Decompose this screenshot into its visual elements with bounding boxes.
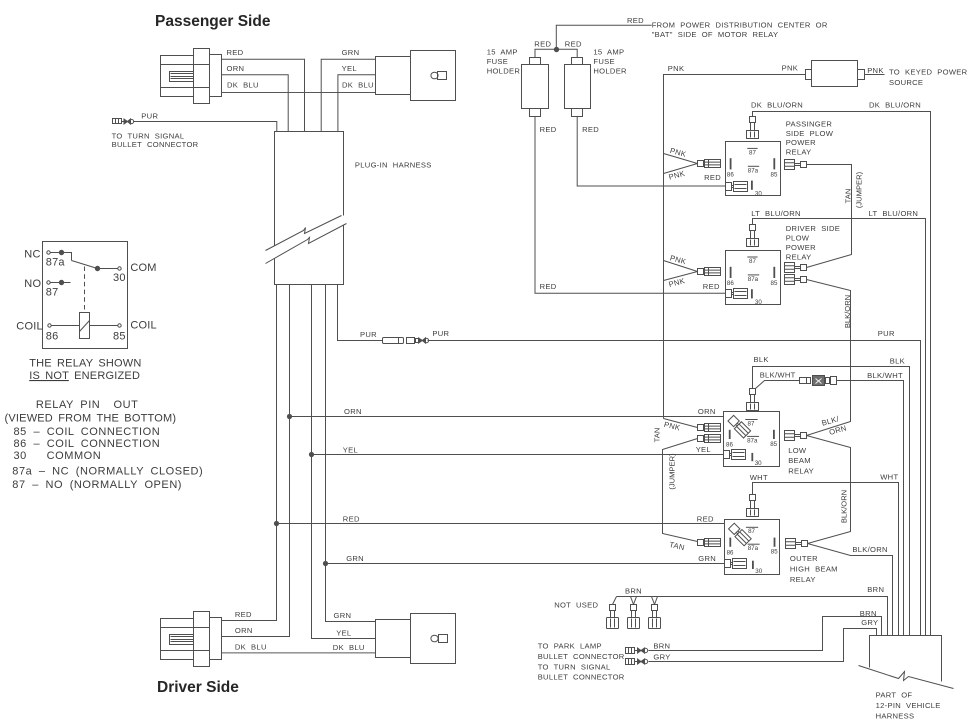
svg-text:IS NOT ENERGIZED: IS NOT ENERGIZED [29, 370, 140, 382]
svg-text:TAN: TAN [668, 540, 685, 552]
svg-text:TO KEYED POWER: TO KEYED POWER [889, 67, 968, 76]
wire RED fuse F2 top to junction [556, 40, 582, 58]
relay K1 left spade connector [698, 160, 721, 168]
wire RED fuse F1 to driver relay 86 [535, 116, 725, 293]
relay K4 pin 85 [771, 538, 778, 556]
wire GRN passenger [321, 48, 375, 131]
relay internal schematic box [43, 242, 128, 349]
svg-text:PASSINGER: PASSINGER [786, 119, 833, 128]
svg-text:BLK/WHT: BLK/WHT [867, 371, 903, 380]
bullet connector pair BRN park lamp [626, 648, 648, 654]
wire WHT outer high beam relay to 12-pin harness [750, 473, 899, 636]
svg-text:BRN: BRN [860, 609, 877, 618]
relay K1 pin 86 [727, 158, 734, 178]
not used spade connector 3 [649, 597, 661, 629]
wire ORN passenger [222, 64, 289, 131]
svg-text:SOURCE: SOURCE [889, 78, 923, 87]
svg-text:RELAY: RELAY [786, 148, 812, 157]
svg-text:THE RELAY SHOWN: THE RELAY SHOWN [29, 358, 141, 370]
wire PUR below harness with inline bullet pair [338, 285, 383, 341]
svg-text:PNK: PNK [669, 146, 687, 159]
relay K1 passenger side plow power relay box [726, 119, 834, 195]
svg-text:RED: RED [343, 515, 360, 524]
relay K2 pin 30 [752, 289, 762, 306]
svg-text:BRN: BRN [625, 586, 642, 595]
wire YEL passenger [338, 64, 375, 131]
svg-text:87a: 87a [748, 545, 759, 552]
relay K2 left spade connector [698, 268, 721, 276]
relay K2 pin 85 [771, 267, 778, 287]
svg-text:86 – COIL CONNECTION: 86 – COIL CONNECTION [14, 438, 161, 450]
junction RED fuses [554, 47, 558, 51]
svg-text:BLK/WHT: BLK/WHT [760, 370, 796, 379]
svg-text:30: 30 [755, 460, 762, 467]
svg-text:PART OF: PART OF [876, 691, 913, 700]
wire DK BLU driver [222, 643, 376, 653]
relay K3 right spade connector [785, 431, 807, 441]
relay K1 right spade connector [785, 160, 807, 170]
wire LT BLU/ORN to 12-pin harness [751, 209, 925, 635]
wire PNK keyed power vertical and horizontal [664, 63, 806, 418]
connector J4 driver bulb socket (right) [376, 614, 456, 664]
connector J1 passenger headlamp plug (left) [161, 49, 222, 104]
plug-in harness box [275, 132, 432, 285]
svg-text:87 – NO (NORMALLY OPEN): 87 – NO (NORMALLY OPEN) [12, 479, 182, 491]
relay moving arm to COM 30 [72, 261, 157, 285]
svg-text:RED: RED [703, 282, 720, 291]
note from power distribution center [652, 21, 828, 40]
wire PNK to keyed power source [865, 66, 968, 87]
wire PUR to 12-pin harness [428, 329, 921, 636]
wire PNK branch to driver relay [664, 253, 698, 289]
svg-text:ORN: ORN [698, 407, 716, 416]
note relay pin out list [5, 399, 204, 491]
relay contact NC 87a [24, 248, 71, 268]
svg-text:COIL: COIL [130, 320, 156, 332]
relay K4 pin 86 [727, 538, 734, 557]
svg-text:FROM POWER DISTRIBUTION CENTER: FROM POWER DISTRIBUTION CENTER OR [652, 21, 828, 30]
svg-text:RED: RED [565, 40, 582, 49]
svg-text:OUTER: OUTER [790, 554, 818, 563]
relay K2 pin 86 [727, 267, 734, 287]
svg-text:POWER: POWER [786, 243, 816, 252]
svg-text:RED: RED [540, 282, 557, 291]
svg-text:85: 85 [771, 549, 778, 556]
svg-text:85 – COIL CONNECTION: 85 – COIL CONNECTION [14, 426, 161, 438]
svg-text:HOLDER: HOLDER [487, 67, 521, 76]
svg-text:GRN: GRN [334, 611, 352, 620]
relay K3 pin 85 [770, 430, 777, 448]
note the relay shown is not energized [29, 358, 141, 382]
bullet connector pair PUR (to turn signal, passenger) [113, 119, 134, 125]
relay K2 pin 87a [748, 275, 759, 283]
svg-text:12-PIN VEHICLE: 12-PIN VEHICLE [876, 701, 941, 710]
svg-text:BRN: BRN [653, 641, 670, 650]
relay coil pin 85 [90, 320, 157, 343]
svg-text:RED: RED [227, 48, 244, 57]
wire RED passenger [222, 48, 305, 131]
svg-text:BLK/ORN: BLK/ORN [839, 490, 848, 523]
svg-text:30: 30 [755, 568, 762, 575]
svg-text:PNK: PNK [668, 169, 686, 182]
relay K2 driver side plow power relay box [726, 224, 841, 304]
svg-text:15 AMP: 15 AMP [593, 47, 624, 56]
svg-text:TO PARK LAMP: TO PARK LAMP [538, 642, 602, 651]
svg-text:GRN: GRN [342, 48, 360, 57]
harness break lines [266, 216, 347, 264]
svg-text:"BAT" SIDE OF MOTOR RELAY: "BAT" SIDE OF MOTOR RELAY [652, 30, 779, 39]
svg-text:(VIEWED FROM THE BOTTOM): (VIEWED FROM THE BOTTOM) [5, 413, 177, 425]
relay K3 bottom spade connector [724, 450, 746, 460]
svg-text:ORN: ORN [235, 626, 253, 635]
svg-text:NO: NO [24, 278, 41, 290]
svg-text:RED: RED [534, 40, 551, 49]
svg-text:PNK: PNK [668, 276, 686, 289]
wire BRN not used chain to 12-pin harness [617, 585, 888, 635]
svg-text:WHT: WHT [750, 473, 768, 482]
svg-text:(JUMPER): (JUMPER) [854, 171, 863, 208]
svg-text:87a: 87a [748, 167, 759, 174]
svg-text:PNK: PNK [782, 63, 799, 72]
svg-text:DK BLU: DK BLU [333, 643, 365, 652]
svg-text:COIL: COIL [16, 321, 42, 333]
svg-text:87a – NC (NORMALLY CLOSED): 87a – NC (NORMALLY CLOSED) [12, 465, 203, 477]
svg-text:30: 30 [755, 299, 762, 306]
svg-text:GRY: GRY [861, 618, 878, 627]
svg-text:ORN: ORN [344, 407, 362, 416]
relay K2 right upper spade connector [785, 263, 807, 273]
relay K1 top spade connector [747, 117, 759, 139]
12-pin vehicle harness box [859, 636, 954, 721]
relay K3 pin 87 [745, 420, 757, 428]
relay coil pin 86 [16, 321, 79, 343]
svg-text:BRN: BRN [867, 585, 884, 594]
svg-text:DK BLU/ORN: DK BLU/ORN [869, 101, 921, 110]
relay K4 right spade connector [786, 539, 808, 549]
svg-text:HIGH BEAM: HIGH BEAM [790, 564, 838, 573]
svg-text:RED: RED [582, 125, 599, 134]
wire ORN below harness to driver side and low beam relay [222, 285, 724, 637]
svg-text:PNK: PNK [669, 253, 687, 266]
wire GRN below harness to driver side and outer high beam relay [323, 285, 724, 622]
wire TAN jumper relay K1 to relay K2 [807, 165, 864, 268]
svg-text:DK BLU/ORN: DK BLU/ORN [751, 101, 803, 110]
svg-text:PNK: PNK [663, 420, 681, 433]
wire YEL below harness to driver side and low beam relay [309, 285, 723, 639]
svg-text:HARNESS: HARNESS [876, 712, 915, 721]
svg-text:RELAY: RELAY [790, 575, 816, 584]
wire BLK low beam relay to 12-pin harness [753, 355, 910, 636]
relay K3 pin 86 [726, 430, 733, 449]
relay K1 pin 85 [771, 158, 778, 178]
svg-text:BULLET CONNECTOR: BULLET CONNECTOR [112, 140, 199, 149]
relay K4 pin 87 [746, 527, 758, 535]
svg-text:RED: RED [627, 16, 644, 25]
svg-text:RELAY PIN OUT: RELAY PIN OUT [36, 399, 138, 411]
svg-text:RED: RED [235, 610, 252, 619]
svg-text:RELAY: RELAY [788, 467, 814, 476]
wire RED to power distribution center [556, 16, 651, 49]
svg-text:LOW: LOW [788, 446, 807, 455]
svg-text:TO TURN SIGNAL: TO TURN SIGNAL [538, 662, 611, 671]
svg-text:RELAY: RELAY [786, 252, 812, 261]
svg-text:PUR: PUR [360, 330, 377, 339]
svg-text:NC: NC [24, 248, 40, 260]
svg-text:86: 86 [727, 549, 734, 556]
relay K3 left upper spade connector [698, 424, 721, 432]
relay K4 pin 30 [753, 561, 763, 575]
inline connector pair BLK/WHT [800, 376, 837, 386]
relay K2 bottom spade connector [726, 289, 748, 299]
relay K4 pin 87a [748, 544, 760, 552]
svg-text:RED: RED [540, 125, 557, 134]
relay K4 outer high beam relay box [725, 520, 838, 584]
svg-text:FUSE: FUSE [487, 57, 508, 66]
svg-text:87a: 87a [747, 437, 758, 444]
relay K3 top spade connector [747, 389, 759, 411]
svg-text:COM: COM [130, 262, 156, 274]
wire PUR to plug-in harness (passenger) [134, 111, 277, 131]
wire PNK branch to low beam relay [663, 419, 697, 433]
fuse holder F2 15 amp [565, 47, 628, 116]
inline component PNK (diode block) [806, 61, 865, 87]
svg-text:Driver Side: Driver Side [157, 679, 239, 696]
wire BLK/ORN outer high beam relay to 12-pin harness [808, 544, 893, 636]
svg-text:BLK/ORN: BLK/ORN [852, 545, 887, 554]
svg-text:BLK/ORN: BLK/ORN [843, 295, 852, 328]
relay contact NO 87 [24, 278, 70, 298]
svg-text:TAN: TAN [653, 428, 662, 443]
svg-text:GRY: GRY [653, 653, 670, 662]
connector J2 passenger bulb socket (right) [376, 51, 456, 101]
svg-text:SIDE PLOW: SIDE PLOW [786, 129, 834, 138]
wire PNK branch to passenger relay [664, 146, 698, 182]
relay K1 pin 87a [748, 166, 759, 174]
svg-text:YEL: YEL [342, 64, 357, 73]
wire BLK/ORN relay K2 to low beam relay [807, 280, 853, 436]
relay K3 diagonal 87 spade connector [727, 415, 750, 438]
svg-text:PLUG-IN HARNESS: PLUG-IN HARNESS [355, 161, 432, 170]
wire DK BLU passenger [222, 80, 376, 92]
svg-text:30 COMMON: 30 COMMON [14, 450, 102, 462]
wire TAN jumper low beam relay to outer high beam relay [653, 428, 698, 553]
svg-text:85: 85 [113, 330, 126, 342]
connector J3 driver headlamp plug (left) [161, 612, 222, 667]
svg-text:DK BLU: DK BLU [227, 80, 259, 89]
svg-text:YEL: YEL [696, 445, 711, 454]
svg-text:DK BLU: DK BLU [235, 643, 267, 652]
svg-text:LT BLU/ORN: LT BLU/ORN [751, 209, 801, 218]
relay coil element [80, 267, 90, 339]
svg-text:87: 87 [748, 528, 755, 535]
svg-text:PUR: PUR [878, 329, 895, 338]
svg-text:PNK: PNK [668, 64, 685, 73]
bullet connector pair PUR inline [383, 338, 429, 344]
svg-text:YEL: YEL [336, 629, 351, 638]
wire GRY turn signal to 12-pin harness [649, 618, 879, 662]
svg-text:86: 86 [727, 280, 734, 287]
relay K3 pin 87a [747, 436, 759, 444]
relay K1 pin 30 [752, 181, 762, 198]
wire DK BLU/ORN to 12-pin harness [751, 101, 931, 636]
relay K1 pin 87 [747, 148, 757, 156]
relay K2 right lower spade connector [785, 275, 807, 285]
svg-text:87: 87 [749, 258, 756, 265]
svg-text:YEL: YEL [343, 445, 358, 454]
relay K2 pin 87 [747, 257, 757, 265]
relay K2 top spade connector [747, 225, 759, 247]
svg-text:POWER: POWER [786, 138, 816, 147]
svg-text:FUSE: FUSE [593, 57, 614, 66]
svg-text:30: 30 [755, 190, 762, 197]
svg-text:87a: 87a [46, 257, 66, 269]
relay K4 bottom spade connector [725, 559, 747, 569]
relay K3 low beam relay box [724, 412, 815, 476]
wire RED fuse F2 to passenger relay 86 [577, 116, 725, 186]
relay K3 left lower spade connector [698, 435, 721, 443]
relay K4 top spade connector [747, 495, 759, 517]
svg-text:NOT USED: NOT USED [554, 600, 598, 609]
bullet connector pair GRY turn signal [626, 659, 648, 665]
svg-text:DK BLU: DK BLU [342, 80, 374, 89]
svg-text:85: 85 [771, 280, 778, 287]
note to park lamp / turn signal bullet connectors [538, 642, 625, 682]
svg-text:BEAM: BEAM [788, 456, 811, 465]
fuse holder F1 15 amp [487, 47, 549, 116]
relay K3 pin 30 [752, 453, 762, 467]
wire BRN park lamp to 12-pin harness [649, 609, 882, 651]
svg-text:BLK: BLK [890, 357, 905, 366]
not used spade connector 1 [607, 597, 619, 629]
svg-text:PUR: PUR [141, 111, 158, 120]
svg-text:85: 85 [770, 441, 777, 448]
svg-text:DRIVER SIDE: DRIVER SIDE [786, 224, 840, 233]
svg-text:ORN: ORN [227, 64, 245, 73]
svg-text:85: 85 [771, 171, 778, 178]
svg-text:86: 86 [727, 171, 734, 178]
svg-text:WHT: WHT [880, 473, 898, 482]
svg-text:87: 87 [46, 286, 59, 298]
wire BLK/WHT with inline connector to 12-pin harness [756, 370, 904, 635]
svg-text:PUR: PUR [432, 329, 449, 338]
svg-text:BLK: BLK [754, 355, 769, 364]
svg-text:Passenger Side: Passenger Side [155, 13, 271, 30]
not used spade connector 2 [628, 597, 640, 629]
svg-text:GRN: GRN [346, 554, 364, 563]
svg-text:15 AMP: 15 AMP [487, 47, 518, 56]
svg-text:86: 86 [726, 442, 733, 449]
svg-text:87: 87 [749, 150, 756, 157]
svg-text:TAN: TAN [843, 189, 852, 204]
svg-text:PLOW: PLOW [786, 234, 810, 243]
wire RED below harness to driver side and outer high beam relay [222, 285, 725, 621]
svg-text:PNK: PNK [867, 66, 884, 75]
relay K1 bottom spade connector [726, 182, 748, 192]
relay K4 left spade connector [698, 539, 721, 547]
svg-text:30: 30 [113, 272, 126, 284]
svg-text:87a: 87a [748, 276, 759, 283]
svg-text:LT BLU/ORN: LT BLU/ORN [869, 209, 919, 218]
svg-text:BULLET CONNECTOR: BULLET CONNECTOR [538, 652, 625, 661]
wire RED fuse F1 top to junction [534, 40, 556, 58]
note to turn signal bullet connector (passenger) [112, 132, 199, 150]
svg-text:(JUMPER): (JUMPER) [667, 453, 676, 490]
svg-text:RED: RED [697, 514, 714, 523]
svg-text:86: 86 [46, 330, 59, 342]
svg-text:RED: RED [704, 173, 721, 182]
svg-text:87: 87 [748, 420, 755, 427]
svg-text:HOLDER: HOLDER [593, 67, 627, 76]
svg-text:BULLET CONNECTOR: BULLET CONNECTOR [538, 673, 625, 682]
relay K4 diagonal 87 spade connector [728, 522, 751, 545]
wire BLK/ORN low beam to outer high beam relay [807, 414, 851, 543]
svg-text:GRN: GRN [698, 554, 716, 563]
